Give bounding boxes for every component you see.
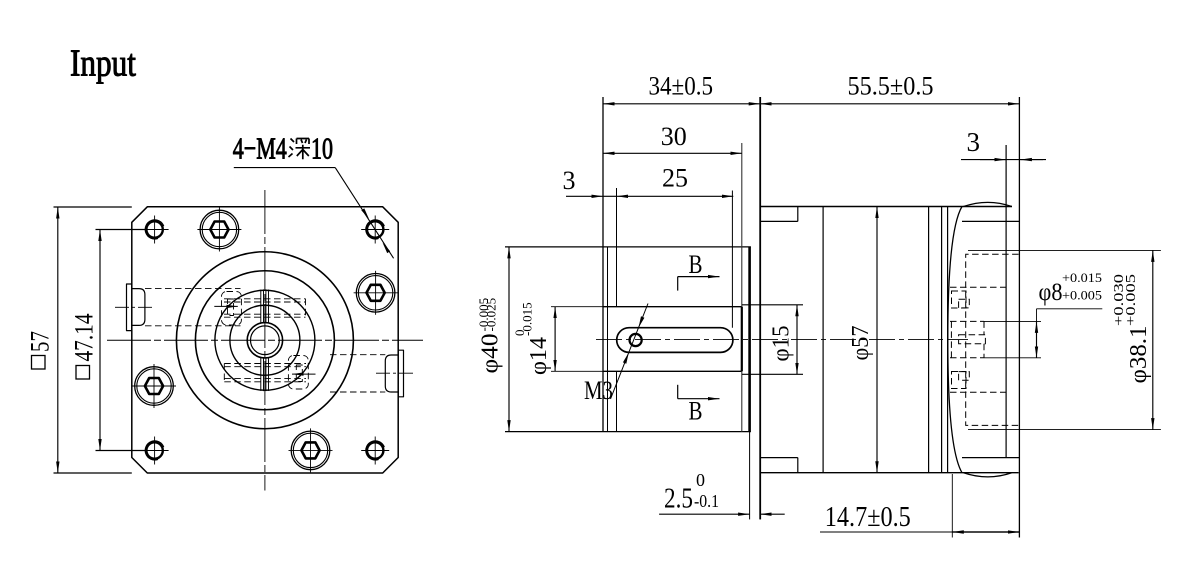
left side tab — [127, 284, 145, 331]
body front face — [759, 97, 761, 519]
boss right face lower — [616, 371, 618, 431]
right keyway section arrow — [292, 373, 316, 375]
svg-text:14.7±0.5: 14.7±0.5 — [825, 501, 911, 533]
dim 2.5 — [659, 470, 785, 519]
M3 leader — [611, 304, 649, 400]
dim 25 — [617, 164, 734, 197]
corner hole M4 top-right — [361, 216, 389, 244]
svg-text:φ8: φ8 — [1039, 279, 1063, 306]
dim square57 — [26, 207, 132, 473]
side centerline — [596, 339, 968, 341]
center bore outer circle — [247, 323, 282, 358]
dim phi57 — [848, 207, 877, 473]
dim phi15 — [769, 305, 798, 375]
svg-text:φ15: φ15 — [769, 326, 795, 362]
phi15 stub top — [742, 304, 803, 306]
body joint line 823 — [822, 207, 824, 473]
right keyway hidden lines — [224, 355, 385, 392]
center bore inner circle — [251, 326, 280, 355]
cap hidden bore rect — [966, 254, 1019, 425]
dim phi8 — [984, 270, 1102, 358]
hand-drawn CJK 深 — [289, 139, 311, 160]
leader 4-M4 — [233, 131, 394, 259]
dim square47.14 — [70, 230, 148, 451]
flange-body joint bottom seg — [797, 458, 799, 473]
flange front face thick — [748, 247, 751, 432]
corner hole M4 bottom-left — [141, 437, 169, 465]
left keyway centerline — [115, 306, 154, 308]
FRONT VIEW GROUP — [70, 43, 423, 491]
right keyway centerline — [376, 372, 415, 374]
svg-text:4−M4: 4−M4 — [233, 131, 287, 166]
SIDE VIEW GROUP — [505, 97, 1019, 538]
dim 30 — [603, 122, 742, 153]
cap base line 947 — [947, 207, 949, 473]
body bottom — [760, 472, 1019, 474]
svg-text:3: 3 — [967, 127, 981, 157]
cap rim face — [1005, 145, 1007, 458]
dim 3 left — [563, 166, 617, 196]
svg-text:Input: Input — [70, 43, 136, 85]
centerline vertical — [264, 190, 266, 491]
socket screw hole right — [354, 271, 398, 315]
right side tab — [385, 350, 403, 397]
shaft chamfer line — [607, 247, 609, 432]
svg-text:2.5: 2.5 — [664, 483, 693, 515]
svg-text:φ14: φ14 — [526, 337, 552, 375]
socket screw hole bottom — [289, 428, 333, 472]
bore top line — [603, 306, 742, 308]
svg-text:34±0.5: 34±0.5 — [649, 71, 714, 100]
svg-text:φ57: φ57 — [848, 326, 874, 361]
circle r50 — [215, 290, 315, 390]
svg-text:M3: M3 — [584, 376, 613, 405]
svg-text:B: B — [689, 250, 703, 279]
flange chamfer bottom — [760, 457, 798, 459]
body top — [760, 206, 1012, 208]
M3 hole circle — [630, 334, 642, 346]
cap hidden lines upper — [950, 287, 1006, 392]
svg-text:B: B — [689, 397, 703, 426]
dim 55.5 — [760, 71, 1019, 104]
dim 14.7 — [820, 474, 1019, 538]
circle r69.5 — [195, 271, 334, 410]
svg-text:25: 25 — [662, 164, 688, 193]
dim phi40 — [476, 247, 509, 432]
svg-text:φ38.1: φ38.1 — [1126, 326, 1152, 384]
boss circle r88.5 — [176, 252, 353, 429]
cap chamfer bottom — [962, 457, 1019, 459]
socket screw hole top — [197, 208, 241, 252]
svg-text:φ40: φ40 — [478, 334, 504, 374]
boss right face / 25 ext upper — [616, 188, 618, 307]
cap chamfer top — [962, 220, 1019, 222]
circle r35 — [230, 305, 300, 375]
square flange outline — [132, 207, 398, 473]
svg-text:+0.030+0.005: +0.030+0.005 — [1112, 274, 1139, 326]
collet slit lines — [261, 289, 269, 391]
body joint line 928 — [928, 207, 930, 473]
cap dome bottom arc — [964, 473, 1012, 477]
svg-text:57: 57 — [26, 331, 55, 352]
phi40 top line — [505, 246, 751, 248]
phi15 stub bottom — [742, 373, 803, 375]
svg-text:55.5±0.5: 55.5±0.5 — [848, 71, 934, 100]
left keyway hidden lines — [145, 289, 306, 326]
socket screw hole left — [132, 364, 176, 408]
svg-text:-0.005-0.025: -0.005-0.025 — [476, 298, 499, 332]
body joint line 941 — [941, 207, 943, 473]
centerline horizontal — [107, 339, 423, 341]
dim 34 — [603, 71, 760, 104]
bore end face thick — [741, 307, 743, 372]
flange-body joint top seg — [797, 207, 799, 222]
dim 3 right — [961, 127, 1046, 160]
section B upper — [678, 250, 720, 291]
dim phi14 — [512, 302, 603, 375]
30 ext / shaft end — [741, 143, 743, 432]
DIMENSIONS GROUP — [26, 71, 1161, 537]
svg-text:10: 10 — [311, 131, 333, 166]
left keyway section arrow — [214, 305, 238, 307]
svg-text:3: 3 — [563, 166, 576, 195]
flange face ext for 2.5 — [749, 432, 751, 520]
corner hole M4 bottom-right — [361, 437, 389, 465]
flange chamfer top — [760, 220, 798, 222]
dim phi38.1 — [968, 250, 1161, 429]
cap dome top arc — [964, 202, 1012, 206]
svg-text:30: 30 — [661, 122, 687, 151]
svg-text:47.14: 47.14 — [70, 314, 99, 362]
bore bottom line — [603, 370, 742, 372]
phi40 bottom line — [505, 431, 751, 433]
shaft left face — [602, 97, 604, 432]
cap right face — [1018, 97, 1020, 538]
section B lower — [678, 385, 720, 426]
25 ext right — [731, 191, 733, 328]
key slot — [617, 328, 733, 353]
cap dome left ellipse — [948, 207, 962, 473]
corner hole M4 top-left — [141, 216, 169, 244]
